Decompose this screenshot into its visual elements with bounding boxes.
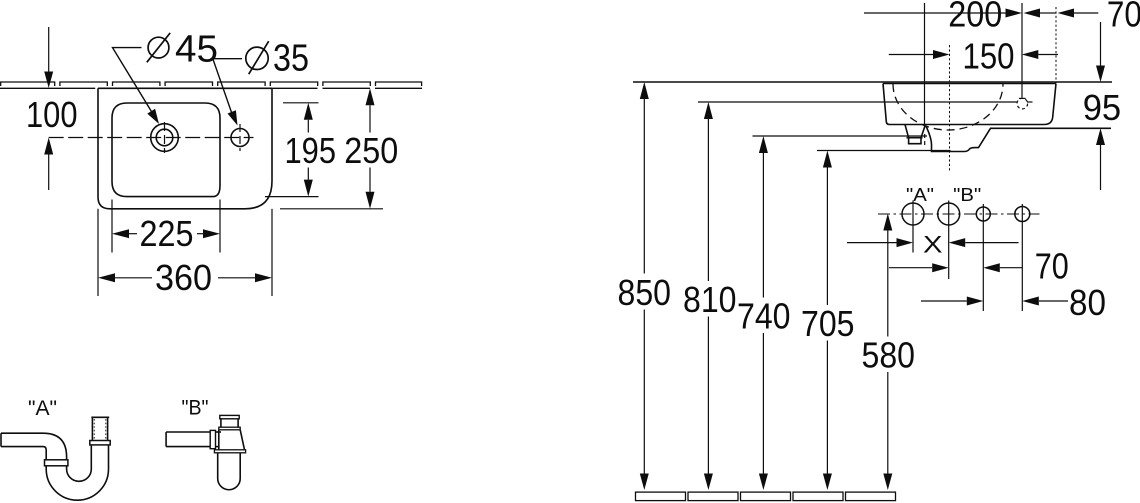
- svg-text:225: 225: [140, 213, 194, 254]
- svg-text:45: 45: [175, 29, 218, 71]
- svg-text:"B": "B": [182, 397, 209, 420]
- svg-text:80: 80: [1069, 282, 1106, 323]
- svg-text:580: 580: [862, 335, 916, 376]
- svg-text:70: 70: [1107, 0, 1140, 34]
- svg-text:740: 740: [737, 296, 791, 337]
- svg-text:100: 100: [26, 94, 78, 135]
- svg-text:360: 360: [155, 257, 212, 298]
- svg-text:250: 250: [344, 130, 398, 171]
- svg-text:"B": "B": [953, 185, 981, 205]
- svg-text:850: 850: [618, 272, 672, 313]
- svg-text:195: 195: [285, 130, 337, 171]
- svg-text:200: 200: [948, 0, 1002, 34]
- svg-text:70: 70: [1035, 246, 1069, 287]
- svg-text:35: 35: [273, 37, 309, 79]
- svg-text:705: 705: [801, 303, 855, 344]
- svg-text:X: X: [923, 232, 943, 259]
- svg-text:810: 810: [683, 279, 737, 320]
- svg-text:"A": "A": [28, 397, 57, 420]
- svg-text:95: 95: [1083, 87, 1122, 128]
- svg-text:"A": "A": [906, 185, 934, 205]
- svg-text:150: 150: [963, 35, 1015, 76]
